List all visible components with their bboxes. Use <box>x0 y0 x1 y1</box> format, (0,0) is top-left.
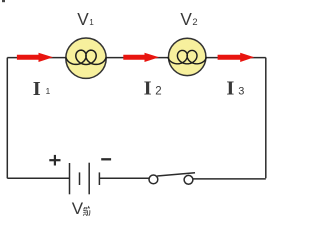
svg-text:1: 1 <box>46 86 51 96</box>
svg-text:I: I <box>144 77 152 99</box>
svg-text:1: 1 <box>89 18 94 27</box>
svg-text:V: V <box>180 9 192 29</box>
svg-text:3: 3 <box>238 86 244 98</box>
svg-text:2: 2 <box>192 16 197 27</box>
svg-text:I: I <box>226 77 234 99</box>
svg-text:I: I <box>33 78 41 100</box>
svg-text:2: 2 <box>155 85 161 97</box>
svg-text:V: V <box>72 199 84 218</box>
svg-text:V: V <box>77 9 89 29</box>
